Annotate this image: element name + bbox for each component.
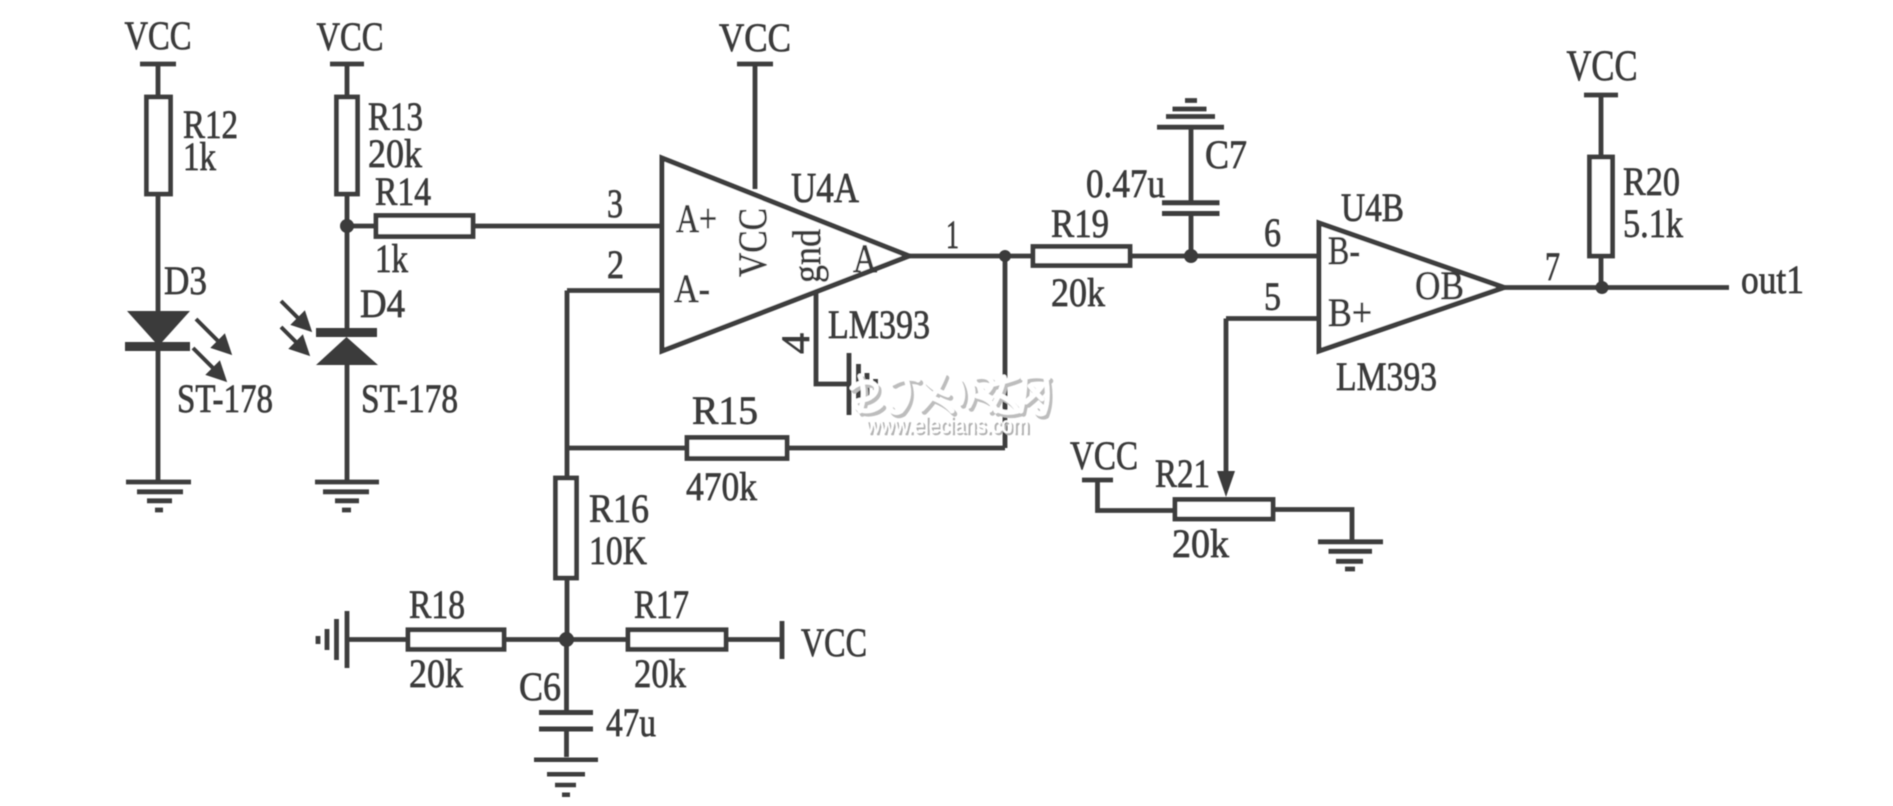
svg-text:A-: A-	[674, 266, 710, 311]
svg-text:B-: B-	[1328, 228, 1360, 273]
svg-text:1: 1	[946, 212, 959, 257]
svg-text:R17: R17	[634, 582, 689, 627]
svg-text:VCC: VCC	[317, 14, 384, 59]
svg-text:47u: 47u	[606, 700, 656, 745]
svg-text:470k: 470k	[686, 464, 757, 509]
svg-text:6: 6	[1264, 210, 1281, 255]
svg-text:A: A	[853, 236, 877, 281]
svg-text:VCC: VCC	[1567, 43, 1638, 90]
svg-text:B+: B+	[1328, 290, 1372, 335]
svg-text:gnd: gnd	[784, 229, 829, 283]
svg-text:5.1k: 5.1k	[1623, 201, 1683, 246]
svg-text:1k: 1k	[375, 236, 408, 281]
svg-text:D3: D3	[164, 258, 207, 303]
svg-text:VCC: VCC	[730, 208, 775, 277]
svg-text:R18: R18	[409, 582, 465, 627]
svg-text:U4A: U4A	[791, 166, 860, 212]
svg-text:7: 7	[1545, 244, 1560, 289]
svg-text:ST-178: ST-178	[177, 376, 273, 421]
svg-text:VCC: VCC	[1070, 433, 1138, 478]
svg-text:VCC: VCC	[801, 620, 867, 665]
svg-text:2: 2	[607, 242, 624, 287]
svg-text:VCC: VCC	[719, 15, 791, 60]
svg-text:out1: out1	[1741, 257, 1804, 302]
svg-text:R20: R20	[1623, 159, 1680, 204]
svg-text:R21: R21	[1155, 451, 1210, 496]
svg-text:5: 5	[1264, 274, 1281, 319]
svg-text:OB: OB	[1415, 263, 1464, 308]
svg-text:C7: C7	[1205, 132, 1247, 177]
svg-text:C6: C6	[519, 664, 561, 709]
svg-text:4: 4	[773, 333, 818, 354]
svg-text:VCC: VCC	[125, 13, 192, 58]
svg-text:U4B: U4B	[1341, 185, 1404, 230]
svg-text:10K: 10K	[589, 528, 647, 573]
svg-text:20k: 20k	[1051, 270, 1105, 315]
svg-text:A+: A+	[676, 196, 717, 241]
svg-text:LM393: LM393	[828, 302, 930, 347]
svg-text:LM393: LM393	[1336, 354, 1437, 399]
svg-text:www.elecians.com: www.elecians.com	[865, 412, 1029, 438]
svg-text:20k: 20k	[634, 651, 686, 696]
svg-text:20k: 20k	[409, 651, 463, 696]
svg-text:1k: 1k	[183, 134, 216, 179]
svg-text:D4: D4	[360, 281, 405, 326]
svg-text:3: 3	[607, 181, 623, 226]
svg-text:20k: 20k	[1172, 521, 1229, 566]
svg-text:ST-178: ST-178	[361, 376, 458, 421]
svg-text:R19: R19	[1051, 201, 1109, 246]
svg-text:R15: R15	[692, 388, 758, 433]
svg-text:R14: R14	[375, 169, 431, 214]
svg-text:R16: R16	[589, 486, 649, 531]
svg-text:0.47u: 0.47u	[1086, 161, 1165, 206]
